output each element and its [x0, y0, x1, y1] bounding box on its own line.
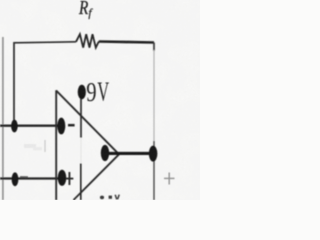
pin: output bullet — [101, 145, 109, 161]
resistor Rf zigzag — [76, 34, 99, 47]
minus sign — [68, 124, 75, 127]
pin: non-inverting input bullet — [58, 170, 67, 186]
wire: top right segment to right rail — [99, 42, 154, 43]
wire: right rail top stub — [153, 43, 155, 52]
plus sign — [66, 172, 74, 185]
positive supply stem — [80, 99, 82, 138]
cut-off bottom text marks — [100, 196, 104, 200]
op-amp U1 triangle left edge — [55, 90, 57, 200]
positive supply bullet — [78, 85, 86, 99]
faint bleed-through smudges — [44, 140, 46, 152]
negative supply stem — [80, 164, 82, 201]
page gutter gray line — [2, 37, 4, 200]
wire: feedback loop top, left riser and right drop — [14, 42, 76, 120]
wire: non-inverting input (lower) — [0, 177, 60, 179]
faint middle stem — [80, 138, 82, 164]
scan grain overlay — [0, 0, 200, 200]
op-amp top edge — [56, 91, 119, 155]
output polarity plus (faint) — [164, 173, 175, 185]
label Rf — [78, 0, 93, 19]
wire: inverting input (upper) — [0, 125, 60, 127]
label 9 V — [86, 76, 109, 107]
op-amp bottom edge — [74, 154, 120, 200]
wire: right rail down (lower part) — [153, 141, 155, 200]
node: feedback junction dot — [11, 120, 18, 133]
wire: right rail down (faint upper part) — [153, 50, 155, 141]
node: output junction dot on right rail — [149, 146, 158, 162]
pin: inverting input bullet — [57, 118, 65, 135]
node: lower input terminal dot — [12, 172, 19, 186]
wire: output to right rail (thick) — [107, 152, 151, 155]
